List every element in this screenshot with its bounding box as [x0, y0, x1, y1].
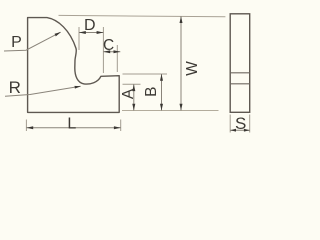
- svg-text:C: C: [103, 37, 114, 54]
- svg-text:P: P: [11, 34, 22, 51]
- L arrow left: [26, 126, 33, 129]
- L dimension line: [26, 127, 120, 129]
- C right extension line: [116, 45, 118, 72]
- B dimension line: [161, 74, 163, 111]
- C dimension line: [103, 51, 120, 53]
- D/C shared extension line: [102, 27, 104, 73]
- R leader arrowhead: [75, 86, 82, 89]
- L arrow right: [114, 126, 121, 129]
- svg-text:S: S: [235, 114, 246, 133]
- bottom extension line (shared A,B,W): [122, 110, 219, 112]
- D dimension line: [79, 32, 103, 34]
- B arrow up: [160, 74, 163, 81]
- B top extension line: [123, 73, 168, 75]
- svg-text:W: W: [184, 61, 201, 76]
- part profile outline (side view): [28, 18, 120, 113]
- S arrow right: [244, 129, 250, 132]
- D left extension line: [78, 27, 80, 50]
- P leader line: [4, 32, 61, 51]
- W dimension line: [180, 16, 182, 110]
- D arrow right: [97, 31, 104, 34]
- L left extension line: [25, 120, 27, 132]
- svg-text:A: A: [120, 88, 137, 99]
- B arrow down: [160, 104, 163, 111]
- svg-text:R: R: [9, 78, 21, 97]
- A arrow up: [132, 84, 135, 91]
- end view inner line upper: [230, 72, 250, 74]
- R leader line: [5, 86, 81, 96]
- S left extension line: [229, 115, 231, 133]
- W arrow down: [180, 104, 183, 111]
- end view rectangle (thickness S): [230, 14, 250, 113]
- W arrow up: [180, 16, 183, 23]
- C arrow right: [114, 50, 121, 53]
- S right extension line: [249, 115, 251, 133]
- S arrow left: [230, 129, 236, 132]
- svg-text:D: D: [84, 17, 96, 34]
- S dimension line: [230, 129, 250, 131]
- A dimension line: [133, 84, 135, 110]
- A arrow down: [132, 104, 135, 111]
- D arrow left: [79, 31, 86, 34]
- L right extension line: [120, 120, 122, 132]
- end view inner line lower: [230, 83, 250, 85]
- A top extension line: [123, 83, 141, 85]
- C arrow left: [103, 50, 110, 53]
- P leader arrowhead: [55, 32, 61, 36]
- svg-text:L: L: [67, 116, 76, 133]
- top extension line (from part top to W): [59, 15, 226, 16]
- svg-text:B: B: [143, 87, 160, 97]
